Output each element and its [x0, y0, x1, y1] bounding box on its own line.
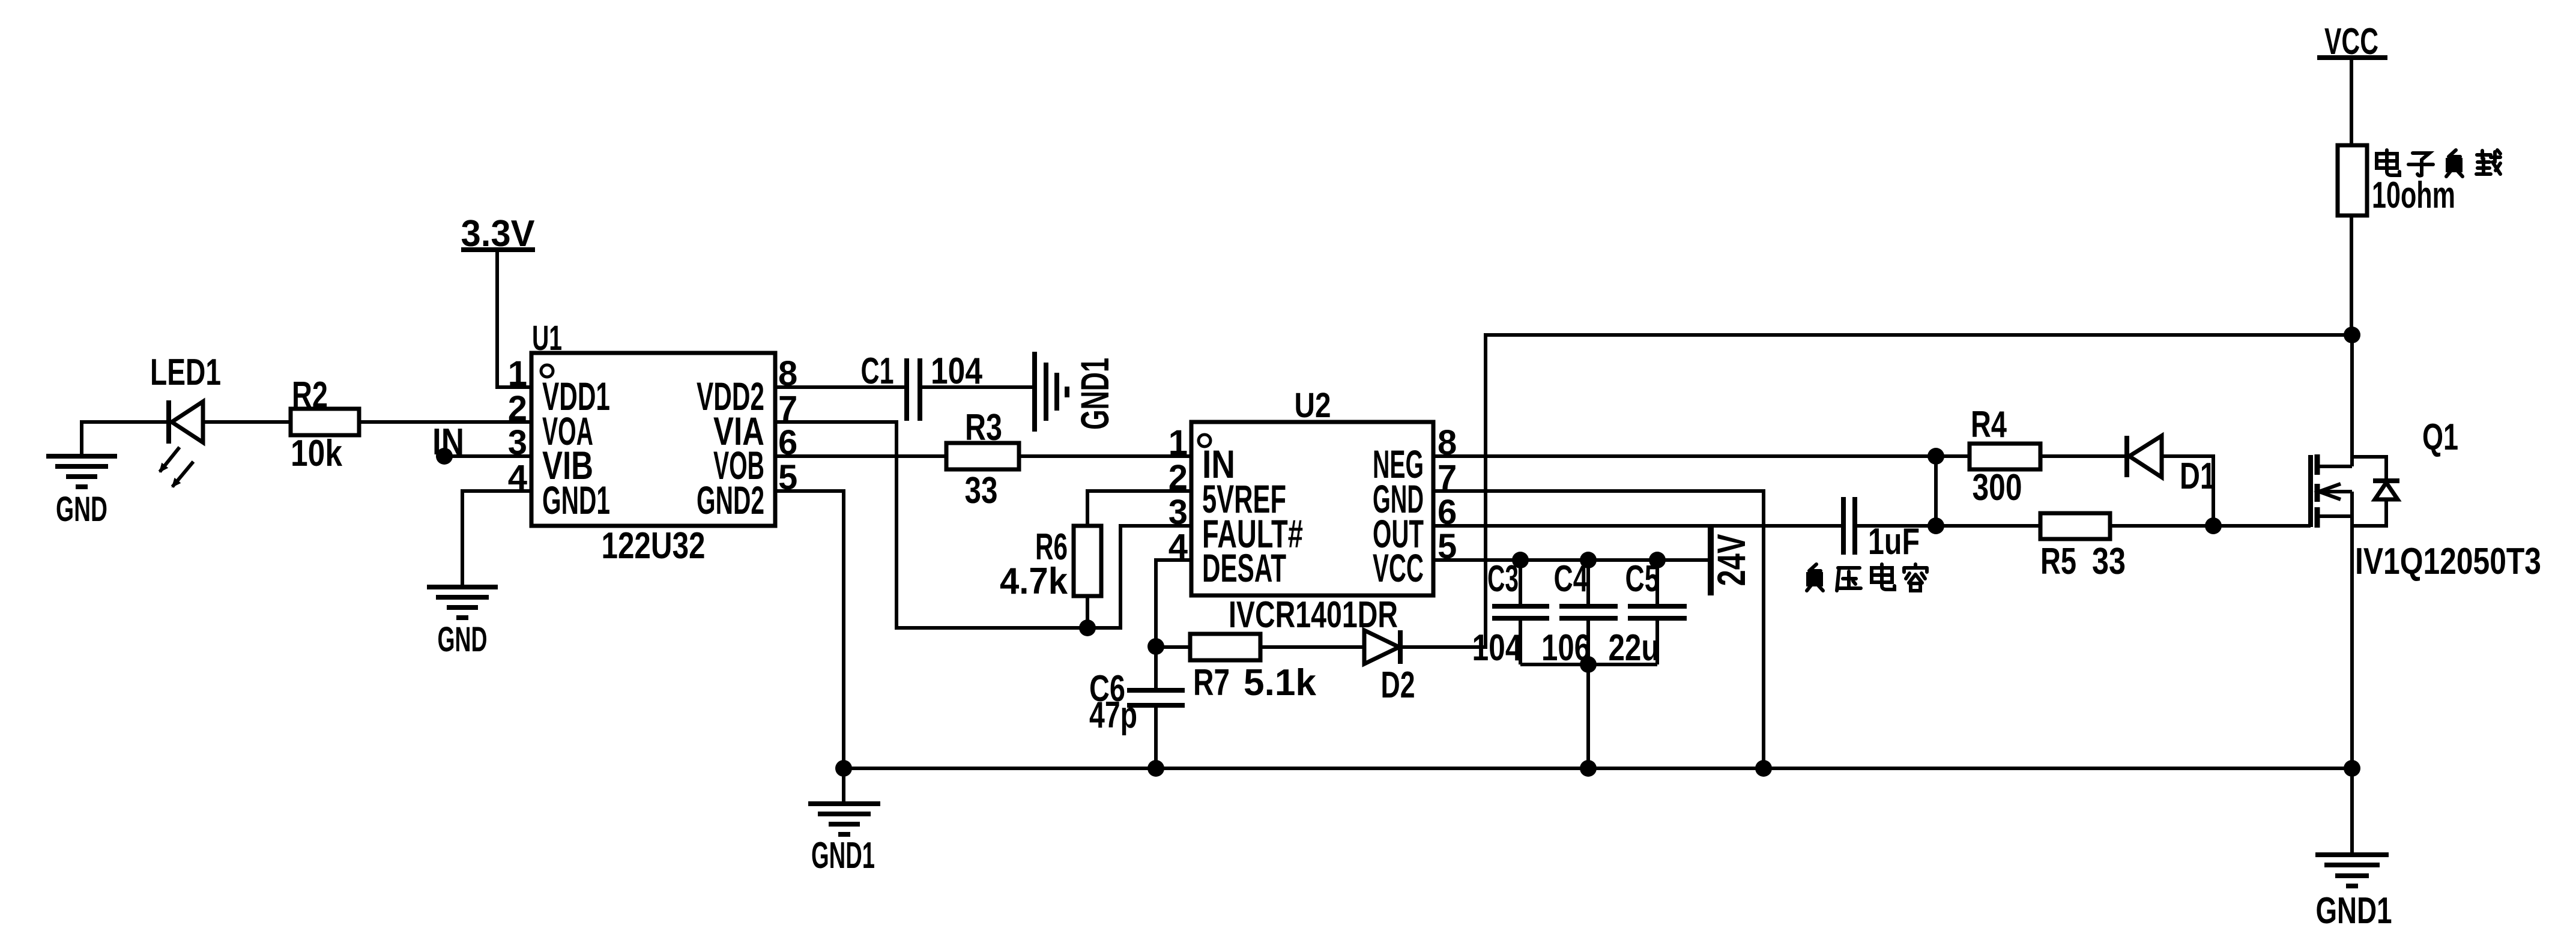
- capacitor 1uF (negative bias): [1843, 497, 1920, 562]
- svg-text:R3: R3: [965, 407, 1002, 448]
- power VCC: [2317, 21, 2387, 145]
- wire node joining NEG and cap: [1934, 456, 1938, 526]
- svg-text:Q1: Q1: [2422, 417, 2458, 458]
- wire C4 bottom to GND1 rail: [1586, 664, 1590, 768]
- node C3 top: [1512, 552, 1529, 568]
- svg-text:LED1: LED1: [150, 352, 221, 393]
- svg-text:1: 1: [508, 354, 527, 393]
- power 3.3V: [461, 213, 536, 255]
- svg-text:2: 2: [508, 389, 527, 428]
- wire R4 to D1: [2040, 454, 2127, 458]
- resistor R4 300: [1970, 404, 2040, 508]
- svg-text:GND1: GND1: [1072, 358, 1117, 430]
- svg-text:300: 300: [1973, 467, 2022, 508]
- resistor R7 5.1k: [1156, 634, 1317, 704]
- svg-text:GND1: GND1: [2316, 890, 2392, 931]
- power 24V: [1709, 526, 1753, 595]
- svg-text:IV1Q12050T3: IV1Q12050T3: [2355, 541, 2541, 582]
- wire capacitor bottoms join: [1520, 663, 1657, 666]
- resistor R2: [291, 375, 359, 474]
- node C5 top: [1649, 552, 1666, 568]
- ground GND1 (rotated, right of C1): [1035, 352, 1117, 432]
- svg-text:GND2: GND2: [697, 478, 764, 522]
- node GND1 rail at C6: [1147, 760, 1164, 777]
- wire U2 DESAT pin4 down: [1156, 560, 1191, 646]
- svg-text:4.7k: 4.7k: [1000, 561, 1068, 602]
- node GND1 rail at U2 GND: [1755, 760, 1772, 777]
- node NEG/R4 junction: [1927, 448, 1944, 465]
- svg-text:GND: GND: [56, 490, 107, 529]
- resistor R6 4.7k: [1000, 491, 1191, 628]
- svg-text:10k: 10k: [291, 433, 342, 474]
- svg-text:24V: 24V: [1709, 534, 1753, 586]
- wire U1 VIA pin7 to U2 FAULT pin3: [775, 422, 1191, 628]
- resistor electronic load 10ohm: [2338, 145, 2455, 335]
- wire U2 GND pin7 down to GND1 rail: [1433, 491, 1764, 768]
- node GND1 rail at C4: [1580, 760, 1597, 777]
- wire U2 OUT pin6 to 1uF: [1433, 524, 1843, 528]
- svg-text:VCC: VCC: [1373, 546, 1424, 590]
- transistor Q1 MOSFET IV1Q12050T3: [2311, 335, 2541, 768]
- wire R2 to U1 pin2: [359, 420, 531, 424]
- label 电子负载: [2377, 150, 2500, 176]
- svg-text:R7: R7: [1193, 662, 1230, 704]
- svg-text:R2: R2: [292, 375, 328, 416]
- wire 3.3V to U1 pin1: [497, 252, 531, 387]
- svg-text:GND1: GND1: [811, 835, 875, 876]
- svg-text:U1: U1: [532, 319, 562, 358]
- svg-text:5.1k: 5.1k: [1244, 662, 1317, 704]
- svg-text:33: 33: [2092, 541, 2126, 582]
- ic U2 IVCR1401DR: [1169, 386, 1457, 636]
- wire LED1 anode to R2: [203, 420, 291, 424]
- wire U1 pin4 to GND: [462, 491, 531, 587]
- ic U1 122U32: [508, 319, 798, 567]
- capacitor C6 47p: [1089, 646, 1185, 768]
- ground GND1 (below rail, mid): [808, 768, 880, 876]
- node gate junction: [2205, 517, 2222, 534]
- wire GND to LED1 cathode: [82, 422, 169, 455]
- node Q1 drain junction: [2344, 327, 2360, 343]
- svg-text:GND: GND: [438, 620, 488, 659]
- node DESAT/R7 junction: [1147, 638, 1164, 655]
- wire U2 VCC pin5 to 24V: [1433, 558, 1711, 562]
- capacitor C5 22u: [1609, 558, 1687, 669]
- node capacitor bottom join: [1580, 656, 1597, 673]
- label 负压电容: [1807, 564, 1927, 591]
- svg-text:3: 3: [1169, 493, 1188, 532]
- resistor R3 33: [946, 407, 1019, 511]
- svg-text:R4: R4: [1971, 404, 2007, 445]
- svg-text:GND1: GND1: [542, 478, 610, 522]
- node GND1 rail at Q1 source: [2344, 760, 2360, 777]
- wire R3 to U2 pin1: [1019, 454, 1191, 458]
- svg-text:33: 33: [965, 470, 998, 511]
- wire U1 VOB pin6 to R3: [775, 454, 946, 458]
- wire U2 NEG pin8 to R4: [1433, 454, 1970, 458]
- diode D1: [2127, 436, 2216, 497]
- wire D1 to gate node: [2162, 456, 2213, 526]
- wire node to R5: [1936, 524, 2040, 528]
- capacitor C1 104: [861, 351, 983, 421]
- wire U1 GND2 pin5 down to GND1 rail: [775, 491, 844, 768]
- svg-text:DESAT: DESAT: [1202, 546, 1286, 590]
- ground GND (left): [46, 456, 117, 529]
- svg-text:IVCR1401DR: IVCR1401DR: [1229, 594, 1398, 636]
- diode D2: [1364, 630, 1415, 706]
- node IN: [432, 421, 464, 465]
- wire U1 pin8 to C1: [775, 385, 907, 389]
- svg-text:22u: 22u: [1609, 627, 1660, 669]
- wire GND1 bottom rail: [844, 767, 2352, 770]
- svg-text:3: 3: [508, 423, 527, 462]
- wire D2 up to top rail to Q1 drain: [1400, 335, 2352, 647]
- wire C1 to GND1: [920, 385, 1035, 389]
- svg-text:D1: D1: [2180, 456, 2216, 497]
- capacitor C3 104: [1472, 558, 1550, 669]
- svg-text:U2: U2: [1295, 386, 1331, 425]
- svg-text:C1: C1: [861, 351, 894, 392]
- svg-text:104: 104: [1472, 627, 1522, 669]
- svg-text:122U32: 122U32: [602, 525, 706, 567]
- ground GND1 (bottom right): [2315, 768, 2392, 931]
- node GND1 rail at 1405: [835, 760, 852, 777]
- resistor R5 33: [2040, 513, 2126, 582]
- svg-text:D2: D2: [1381, 664, 1415, 706]
- ground GND (below U1): [427, 587, 498, 659]
- wire 1uF to R4/R5 node: [1855, 524, 1936, 528]
- node 1uF/R5 junction: [1927, 517, 1944, 534]
- wire R5 to Q1 gate: [2110, 524, 2213, 528]
- svg-text:R5: R5: [2040, 541, 2076, 582]
- node C4 top: [1580, 552, 1597, 568]
- svg-text:47p: 47p: [1089, 694, 1137, 736]
- wire R7 to D2: [1260, 645, 1364, 649]
- LED1: [150, 352, 221, 487]
- node R6 bottom junction: [1079, 619, 1096, 636]
- svg-text:1: 1: [1169, 423, 1188, 462]
- wire IN to U1 pin3: [444, 454, 531, 458]
- svg-text:10ohm: 10ohm: [2372, 175, 2455, 216]
- capacitor C4 106: [1541, 558, 1618, 669]
